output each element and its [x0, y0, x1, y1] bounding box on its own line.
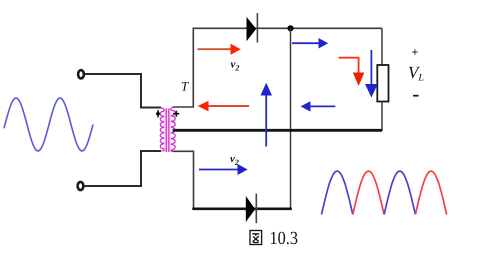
current arrow blue down (near load) — [370, 50, 372, 85]
current arrow blue left (middle right) — [309, 105, 335, 107]
svg-text:10.3: 10.3 — [270, 229, 299, 249]
wire below resistor — [381, 102, 383, 132]
diode D2 — [246, 196, 255, 222]
caption glyph tu — [250, 231, 262, 245]
polarity diamond left — [156, 111, 161, 117]
label minus — [413, 95, 419, 97]
wire right vertical to load — [381, 28, 383, 65]
current arrow red hook (right) — [339, 58, 359, 74]
wire center vertical — [290, 28, 292, 209]
terminal upper — [78, 70, 84, 78]
wire bottom (thick) — [192, 208, 291, 211]
wire lower input — [84, 151, 161, 186]
output waveform hump3 — [384, 171, 415, 215]
transformer T1 secondary winding — [171, 108, 173, 111]
polarity plus right — [173, 111, 179, 117]
wire center tap (thick) — [173, 129, 382, 132]
svg-text:T: T — [181, 79, 189, 94]
wire upper input — [85, 74, 162, 108]
current arrow red left (middle) — [207, 105, 249, 107]
output waveform hump1 — [322, 171, 353, 215]
wire secondary top tap — [173, 28, 382, 107]
input sine waveform — [4, 98, 93, 151]
junction node — [287, 25, 293, 31]
resistor VL — [377, 65, 388, 102]
wire secondary bottom tap — [173, 151, 194, 209]
transformer T1 primary winding — [161, 108, 164, 111]
current arrow blue up (center) — [265, 95, 267, 147]
terminal lower — [78, 182, 84, 190]
transformer T1 core — [164, 108, 172, 152]
svg-text:+: + — [412, 45, 419, 59]
output waveform hump2 — [353, 171, 384, 215]
diode D1 — [247, 17, 257, 41]
current arrow red right (top) — [198, 48, 232, 50]
current arrow blue right (top center) — [292, 42, 320, 44]
output waveform hump4 — [415, 171, 446, 215]
current arrow blue right (bottom) — [199, 169, 239, 171]
